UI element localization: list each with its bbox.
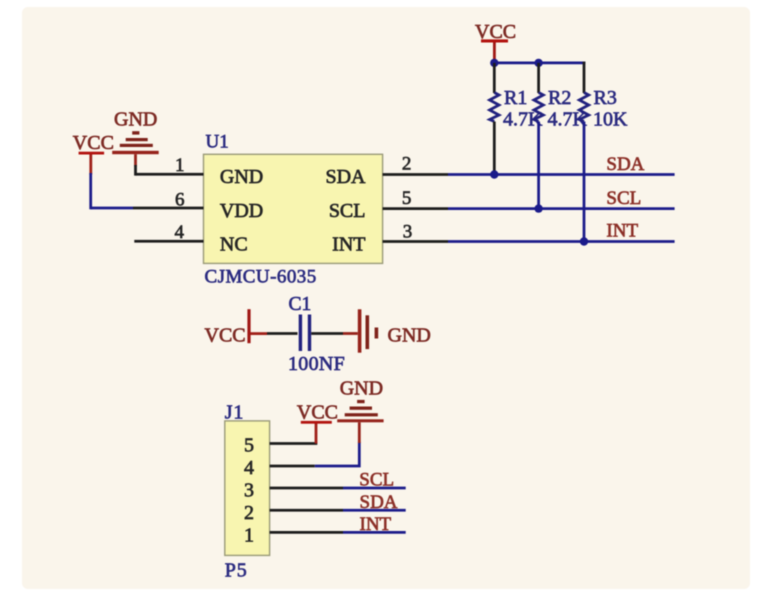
power flag VCC (left of U1) (73, 132, 114, 175)
ground symbol (above J1) (337, 378, 383, 423)
svg-text:GND: GND (388, 325, 431, 347)
power flag VCC (at J1) (297, 401, 338, 423)
svg-text:SDA: SDA (606, 154, 644, 175)
wire R2 top (537, 63, 540, 93)
wire R1 top (493, 63, 496, 93)
svg-text:INT: INT (360, 514, 392, 535)
svg-text:INT: INT (606, 221, 638, 242)
wire VCC rail (black segment) (539, 62, 586, 65)
connector J1 body (225, 421, 270, 556)
ground symbol (right of C1, rotated) (358, 309, 431, 352)
svg-text:U1: U1 (206, 132, 229, 153)
svg-text:GND: GND (340, 378, 383, 400)
svg-text:SCL: SCL (359, 470, 394, 491)
svg-text:R1: R1 (504, 87, 527, 109)
wire C1 to ground (311, 332, 343, 335)
svg-text:NC: NC (220, 234, 248, 256)
resistor R3 (579, 87, 628, 131)
net wire SDA (black stub from pin 2) (383, 173, 448, 176)
IC U1 body (204, 132, 383, 288)
svg-text:VCC: VCC (297, 401, 338, 423)
wire J1 pin2 (black) (270, 509, 343, 512)
pin 6 wire (VDD) navy part (91, 207, 133, 210)
wire R2 bottom (537, 122, 540, 209)
svg-text:10K: 10K (593, 109, 628, 131)
svg-text:1: 1 (244, 525, 254, 547)
svg-text:3: 3 (403, 222, 413, 243)
wire J1 pin1 (navy, net INT) (343, 531, 406, 534)
svg-text:CJMCU-6035: CJMCU-6035 (205, 267, 317, 288)
ground symbol (left of U1) (112, 109, 159, 167)
wire VCC stub vertical (red) (315, 424, 318, 444)
wire VCC to C1 (267, 332, 298, 335)
junction dot SCL/R2 (534, 204, 542, 212)
net wire SDA (navy) (448, 173, 675, 176)
wire J1 pin1 (black) (270, 531, 343, 534)
svg-text:R2: R2 (548, 87, 571, 109)
svg-text:4: 4 (244, 457, 254, 479)
capacitor C1 plates (299, 315, 311, 352)
junction dot at VCC rail / R2 (534, 59, 542, 67)
svg-text:6: 6 (175, 190, 185, 211)
wire R3 bottom (583, 122, 586, 242)
wire VCC rail (navy segment) (494, 62, 538, 65)
net wire SCL (black stub from pin 5) (383, 207, 448, 210)
wire J1 pin5 to VCC (270, 442, 318, 445)
svg-text:2: 2 (244, 502, 254, 524)
junction dot SDA/R1 (490, 170, 498, 178)
svg-text:VDD: VDD (220, 200, 263, 222)
pin 1 wire (GND) (136, 173, 204, 176)
svg-text:100NF: 100NF (288, 353, 345, 375)
svg-text:SDA: SDA (360, 492, 398, 513)
svg-text:SCL: SCL (329, 200, 366, 222)
svg-text:C1: C1 (289, 294, 312, 315)
wire J1 pin2 (navy, net SDA) (343, 509, 406, 512)
svg-text:SCL: SCL (606, 188, 641, 209)
wire GND stub vertical (red) (358, 422, 361, 443)
junction dot INT/R3 (580, 237, 588, 245)
pin 6 wire (VDD) black part (133, 207, 204, 210)
junction dot at VCC rail / R1 (490, 59, 498, 67)
svg-text:R3: R3 (594, 87, 617, 109)
svg-text:GND: GND (220, 166, 263, 188)
wire J1 pin4 black part (270, 465, 315, 468)
pin 4 wire (NC) (134, 240, 203, 243)
wire J1 pin3 (black) (270, 487, 343, 490)
wire R3 top (583, 62, 586, 93)
resistor R2 (534, 87, 588, 131)
net wire SCL (navy) (448, 207, 675, 210)
svg-text:SDA: SDA (325, 166, 366, 188)
svg-text:GND: GND (114, 109, 157, 131)
svg-text:VCC: VCC (205, 325, 246, 347)
svg-text:1: 1 (175, 155, 185, 176)
wire R1 bottom (493, 122, 496, 175)
wire ground stub (red) (343, 332, 358, 335)
resistor R1 (490, 87, 543, 131)
power flag VCC (top, resistor rail) (475, 21, 516, 63)
net wire INT (black stub from pin 3) (383, 240, 448, 243)
wire VCC to VDD (navy vertical) (89, 173, 92, 209)
svg-text:5: 5 (402, 188, 412, 209)
power flag VCC (at C1) (205, 309, 268, 346)
wire J1 pin3 (navy, net SCL) (343, 487, 406, 490)
svg-text:2: 2 (402, 154, 412, 175)
svg-text:P5: P5 (225, 560, 248, 582)
svg-text:4: 4 (175, 222, 185, 243)
svg-text:VCC: VCC (73, 132, 114, 154)
svg-text:3: 3 (244, 479, 254, 501)
wire J1 pin4 navy to GND (315, 442, 360, 466)
net wire INT (navy) (448, 240, 675, 243)
svg-text:INT: INT (332, 234, 365, 256)
wire ground to pin1 (134, 165, 137, 176)
svg-text:5: 5 (244, 434, 254, 456)
